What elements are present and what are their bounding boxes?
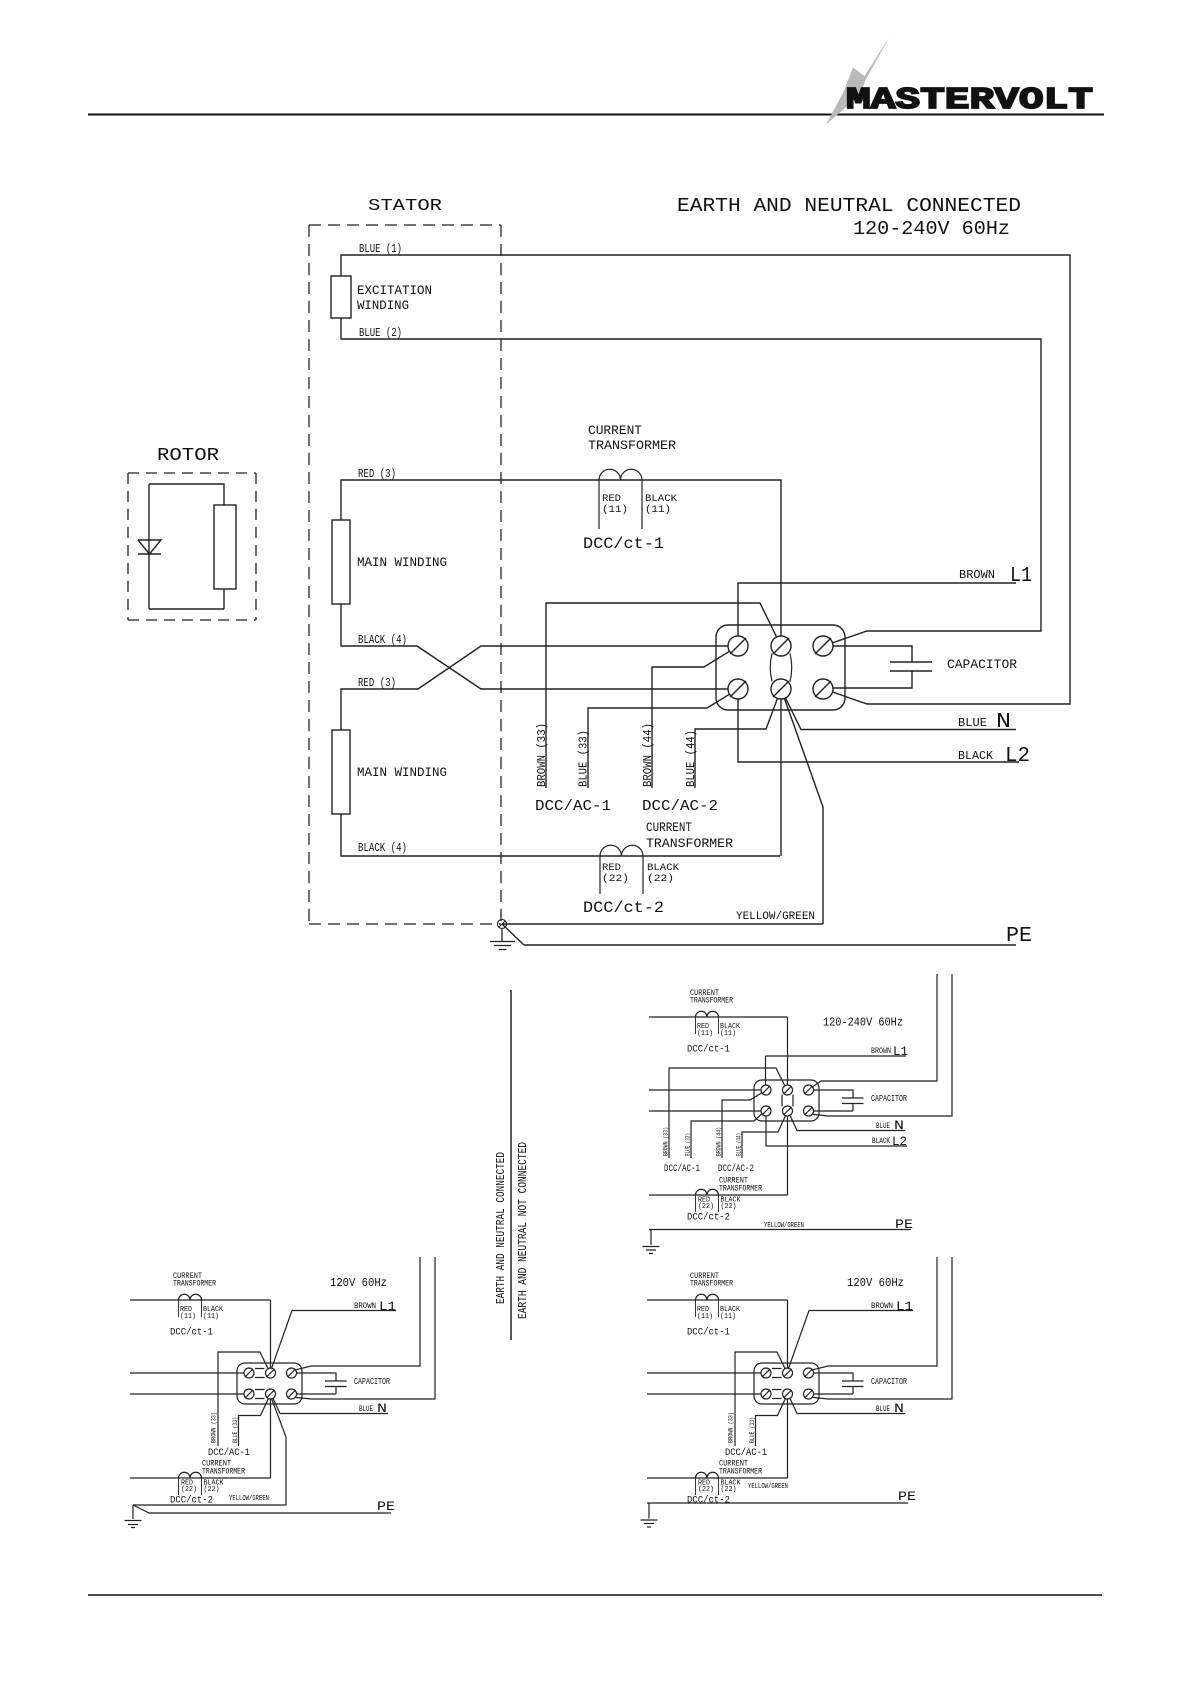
svg-text:DCC/ct-1: DCC/ct-1 bbox=[170, 1327, 213, 1339]
svg-text:(22): (22) bbox=[647, 873, 674, 885]
svg-text:MASTERVOLT: MASTERVOLT bbox=[846, 83, 1093, 118]
svg-text:BLUE (33): BLUE (33) bbox=[232, 1417, 239, 1443]
svg-text:BLACK: BLACK bbox=[872, 1137, 890, 1146]
svg-text:DCC/AC-1: DCC/AC-1 bbox=[664, 1163, 700, 1175]
svg-text:(22): (22) bbox=[721, 1203, 737, 1211]
svg-text:(11): (11) bbox=[180, 1313, 196, 1321]
svg-text:DCC/AC-2: DCC/AC-2 bbox=[642, 798, 718, 815]
svg-text:N: N bbox=[377, 1401, 387, 1416]
svg-text:CAPACITOR: CAPACITOR bbox=[947, 657, 1017, 672]
svg-text:BLACK (4): BLACK (4) bbox=[358, 633, 407, 647]
svg-text:120V 60Hz: 120V 60Hz bbox=[847, 1276, 904, 1290]
svg-text:PE: PE bbox=[898, 1489, 916, 1504]
svg-text:CAPACITOR: CAPACITOR bbox=[871, 1377, 907, 1387]
svg-text:CAPACITOR: CAPACITOR bbox=[871, 1094, 907, 1104]
svg-text:DCC/ct-1: DCC/ct-1 bbox=[583, 535, 664, 553]
svg-text:DCC/ct-2: DCC/ct-2 bbox=[583, 899, 664, 917]
svg-text:TRANSFORMER: TRANSFORMER bbox=[202, 1468, 245, 1477]
svg-text:BLUE (33): BLUE (33) bbox=[749, 1417, 756, 1443]
svg-text:BLUE: BLUE bbox=[876, 1122, 890, 1131]
svg-text:(22): (22) bbox=[602, 873, 629, 885]
svg-text:TRANSFORMER: TRANSFORMER bbox=[646, 836, 733, 851]
svg-text:YELLOW/GREEN: YELLOW/GREEN bbox=[764, 1222, 804, 1230]
svg-text:DCC/ct-1: DCC/ct-1 bbox=[687, 1044, 730, 1056]
svg-text:BLUE (33): BLUE (33) bbox=[685, 1133, 692, 1156]
svg-text:BROWN: BROWN bbox=[354, 1302, 376, 1311]
svg-text:BROWN (33): BROWN (33) bbox=[663, 1127, 670, 1156]
svg-text:BROWN (33): BROWN (33) bbox=[211, 1412, 218, 1443]
svg-text:RED (3): RED (3) bbox=[358, 467, 396, 481]
svg-text:PE: PE bbox=[1006, 925, 1032, 948]
svg-text:BROWN: BROWN bbox=[871, 1302, 893, 1311]
svg-text:YELLOW/GREEN: YELLOW/GREEN bbox=[748, 1483, 788, 1491]
svg-text:BLUE: BLUE bbox=[958, 716, 987, 730]
svg-text:(22): (22) bbox=[204, 1486, 220, 1494]
svg-text:RED (3): RED (3) bbox=[358, 676, 396, 690]
svg-text:DCC/AC-1: DCC/AC-1 bbox=[725, 1447, 767, 1459]
svg-text:DCC/AC-2: DCC/AC-2 bbox=[718, 1163, 754, 1175]
svg-text:BLACK (4): BLACK (4) bbox=[358, 841, 407, 855]
svg-text:L2: L2 bbox=[1005, 745, 1030, 768]
svg-text:(11): (11) bbox=[720, 1313, 736, 1321]
svg-text:WINDING: WINDING bbox=[357, 298, 409, 313]
svg-text:N: N bbox=[894, 1401, 904, 1416]
svg-text:(11): (11) bbox=[697, 1030, 713, 1038]
svg-text:120V 60Hz: 120V 60Hz bbox=[330, 1276, 387, 1290]
svg-text:L1: L1 bbox=[1010, 565, 1032, 588]
svg-text:BROWN (33): BROWN (33) bbox=[536, 723, 549, 787]
svg-text:STATOR: STATOR bbox=[368, 197, 442, 216]
svg-text:BLUE (1): BLUE (1) bbox=[359, 242, 402, 256]
svg-text:TRANSFORMER: TRANSFORMER bbox=[173, 1280, 216, 1289]
svg-text:120-240V 60Hz: 120-240V 60Hz bbox=[853, 218, 1010, 240]
svg-text:CURRENT: CURRENT bbox=[588, 423, 642, 438]
svg-text:(22): (22) bbox=[721, 1486, 737, 1494]
svg-text:DCC/AC-1: DCC/AC-1 bbox=[208, 1447, 250, 1459]
svg-text:PE: PE bbox=[895, 1217, 913, 1232]
svg-text:(11): (11) bbox=[203, 1313, 219, 1321]
svg-text:BLUE (2): BLUE (2) bbox=[359, 326, 402, 340]
svg-text:BROWN: BROWN bbox=[871, 1047, 891, 1056]
svg-text:BROWN (33): BROWN (33) bbox=[728, 1412, 735, 1443]
svg-text:L1: L1 bbox=[893, 1044, 908, 1059]
svg-text:EARTH AND NEUTRAL NOT CONNECTE: EARTH AND NEUTRAL NOT CONNECTED bbox=[516, 1142, 530, 1319]
svg-text:DCC/AC-1: DCC/AC-1 bbox=[535, 798, 611, 815]
svg-text:BLUE: BLUE bbox=[876, 1405, 890, 1414]
svg-text:(11): (11) bbox=[697, 1313, 713, 1321]
svg-text:TRANSFORMER: TRANSFORMER bbox=[690, 1280, 733, 1289]
svg-text:YELLOW/GREEN: YELLOW/GREEN bbox=[229, 1495, 269, 1503]
svg-text:CAPACITOR: CAPACITOR bbox=[354, 1377, 390, 1387]
svg-text:N: N bbox=[996, 711, 1011, 734]
svg-text:BROWN: BROWN bbox=[959, 568, 995, 582]
svg-text:YELLOW/GREEN: YELLOW/GREEN bbox=[736, 911, 815, 923]
svg-text:TRANSFORMER: TRANSFORMER bbox=[690, 997, 733, 1006]
svg-text:TRANSFORMER: TRANSFORMER bbox=[588, 438, 676, 453]
svg-text:BLUE: BLUE bbox=[359, 1405, 373, 1414]
svg-text:CURRENT: CURRENT bbox=[646, 820, 692, 835]
svg-text:(11): (11) bbox=[645, 504, 671, 516]
svg-text:EARTH AND NEUTRAL CONNECTED: EARTH AND NEUTRAL CONNECTED bbox=[677, 195, 1021, 217]
svg-text:(11): (11) bbox=[602, 504, 628, 516]
svg-text:TRANSFORMER: TRANSFORMER bbox=[719, 1185, 762, 1194]
svg-text:L1: L1 bbox=[896, 1299, 913, 1314]
svg-text:L2: L2 bbox=[892, 1134, 907, 1149]
svg-text:EXCITATION: EXCITATION bbox=[357, 283, 432, 298]
svg-text:(22): (22) bbox=[181, 1486, 197, 1494]
svg-text:(11): (11) bbox=[720, 1030, 736, 1038]
svg-text:PE: PE bbox=[377, 1499, 395, 1514]
svg-text:DCC/ct-2: DCC/ct-2 bbox=[687, 1495, 730, 1507]
svg-text:DCC/ct-2: DCC/ct-2 bbox=[687, 1212, 730, 1224]
svg-text:BLUE (44): BLUE (44) bbox=[736, 1133, 743, 1156]
svg-text:ROTOR: ROTOR bbox=[157, 446, 219, 466]
svg-text:L1: L1 bbox=[379, 1299, 396, 1314]
svg-text:BLACK: BLACK bbox=[958, 749, 994, 763]
svg-text:BLUE (33): BLUE (33) bbox=[578, 730, 591, 787]
svg-text:EARTH AND NEUTRAL CONNECTED: EARTH AND NEUTRAL CONNECTED bbox=[494, 1152, 508, 1304]
svg-text:MAIN WINDING: MAIN WINDING bbox=[357, 555, 447, 570]
svg-text:(22): (22) bbox=[698, 1486, 714, 1494]
svg-text:BROWN (44): BROWN (44) bbox=[716, 1127, 723, 1156]
svg-text:BROWN (44): BROWN (44) bbox=[642, 723, 655, 787]
svg-text:MAIN WINDING: MAIN WINDING bbox=[357, 765, 447, 780]
svg-text:(22): (22) bbox=[698, 1203, 714, 1211]
svg-text:120-240V 60Hz: 120-240V 60Hz bbox=[823, 1016, 903, 1030]
svg-text:N: N bbox=[894, 1118, 904, 1133]
svg-text:TRANSFORMER: TRANSFORMER bbox=[719, 1468, 762, 1477]
svg-text:DCC/ct-1: DCC/ct-1 bbox=[687, 1327, 730, 1339]
svg-text:BLUE (44): BLUE (44) bbox=[685, 730, 698, 787]
